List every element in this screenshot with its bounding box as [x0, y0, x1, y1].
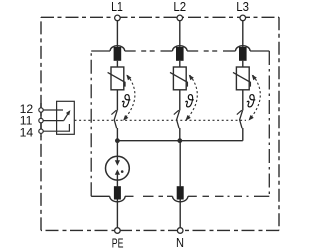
- svg-text:PE: PE: [112, 235, 124, 250]
- thermal disconnect switch L2: [174, 110, 179, 114]
- plug contact pin PE (black): [114, 186, 121, 199]
- solid border segment at signalling terminals: [40, 103, 42, 137]
- wire terminal 14 to contact box: [43, 124, 69, 131]
- thermal action arc L3 (dashed, double arrow): [249, 75, 260, 119]
- wire varistor to disconnect switch L1: [116, 90, 118, 111]
- terminal L1: [115, 15, 121, 21]
- wire to PE terminal: [116, 200, 118, 229]
- svg-text:N: N: [176, 235, 184, 250]
- wire contact to varistor L1: [116, 61, 118, 67]
- wire varistor to disconnect switch L2: [179, 90, 181, 111]
- wire bus to N plug contact: [179, 141, 181, 187]
- changeover contact blade with arrow: [64, 112, 69, 121]
- wire terminal 12 to contact box: [43, 109, 63, 111]
- wire L2 terminal to plug contact: [179, 20, 181, 48]
- varistor L2: [173, 67, 186, 90]
- plug contact pin L1 (black): [114, 47, 122, 61]
- wire terminal 11 to contact box: [43, 120, 64, 122]
- common bus wire: [117, 140, 242, 142]
- plug contact arc PE: [110, 196, 125, 202]
- svg-text:L3: L3: [236, 0, 249, 14]
- wire bus to spark gap: [116, 141, 118, 161]
- svg-text:L2: L2: [173, 0, 186, 14]
- plug contact pin L3 (black): [239, 47, 247, 61]
- wire to N terminal: [179, 200, 181, 229]
- varistor L1: [111, 67, 124, 90]
- terminal N: [177, 228, 183, 234]
- mechanical trip linkage (dashed line to remote contact): [75, 119, 247, 121]
- plug contact pin L2 (black): [176, 47, 184, 61]
- outer enclosure border (dash-dot): [41, 17, 279, 230]
- wire spark gap to PE plug contact: [116, 175, 118, 187]
- remote signalling contact: terminal 11: [39, 118, 43, 122]
- thermal disconnect switch L1: [111, 110, 116, 114]
- changeover contact box: [57, 101, 75, 134]
- varistor L3: [236, 67, 249, 90]
- terminal PE: [115, 228, 121, 234]
- wire contact to varistor L3: [242, 61, 244, 67]
- remote signalling contact: terminal 14: [39, 129, 43, 133]
- remote signalling contact: terminal 12: [39, 108, 43, 112]
- thermal disconnect switch L3: [237, 110, 242, 114]
- plug contact arc N: [173, 196, 188, 202]
- thermal action arc L1 (dashed, double arrow): [124, 75, 135, 119]
- thermal action arc L2 (dashed, double arrow): [186, 75, 197, 119]
- terminal L2: [177, 15, 183, 21]
- wire L1 terminal to plug contact: [116, 20, 118, 48]
- spark gap F1 (triggered spark gap to PE): [106, 156, 130, 180]
- protection module boundary (inner dash-dot box): [91, 51, 269, 196]
- wire L3 terminal to plug contact: [242, 20, 244, 48]
- svg-text:L1: L1: [111, 0, 123, 14]
- junction node at L2/N: [177, 138, 182, 143]
- junction node at L1/spark-gap: [115, 138, 120, 143]
- plug contact arc L3: [236, 46, 251, 51]
- terminal L3: [240, 15, 246, 21]
- wire varistor to disconnect switch L3: [242, 90, 244, 111]
- svg-text:ϑ: ϑ: [185, 91, 194, 111]
- svg-text:ϑ: ϑ: [122, 91, 131, 111]
- plug contact pin N (black): [177, 186, 184, 199]
- plug contact arc L1: [110, 46, 125, 51]
- plug contact arc L2: [173, 46, 188, 51]
- svg-text:14: 14: [20, 125, 34, 139]
- wire contact to varistor L2: [179, 61, 181, 67]
- svg-text:ϑ: ϑ: [246, 91, 255, 111]
